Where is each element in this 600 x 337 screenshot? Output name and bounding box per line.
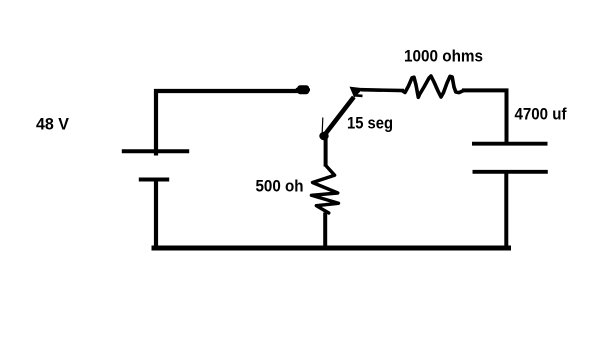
node: switch input terminal dot <box>297 85 309 94</box>
svg-text:1000 ohms: 1000 ohms <box>404 47 483 65</box>
wire: switch pivot down to resistor R2 top lead <box>324 138 328 167</box>
svg-text:500 oh: 500 oh <box>256 177 304 195</box>
battery V1 long (positive) plate <box>122 149 189 153</box>
capacitor C1 top plate <box>472 142 548 146</box>
wire: resistor R2 bottom lead to bottom rail <box>323 213 327 249</box>
svg-text:15 seg: 15 seg <box>347 115 393 133</box>
wire: capacitor bottom plate down to bottom rail <box>504 172 508 250</box>
resistor R2 500 oh (hand-drawn vertical zigzag) <box>311 166 338 214</box>
switch S1 arrow notch <box>354 94 363 97</box>
battery V1 short (negative) plate <box>139 178 169 182</box>
wire: bottom rail <box>154 246 509 251</box>
switch S1 arrowhead <box>350 87 364 98</box>
svg-text:4700 uf: 4700 uf <box>515 105 567 123</box>
switch S1 pivot tick (thin vertical mark) <box>321 118 324 134</box>
wire: switch arrow to resistor R1 left lead <box>361 88 404 93</box>
wire: resistor R1 right lead to top-right corner and down to capacitor top plate <box>462 90 507 143</box>
svg-text:48 V: 48 V <box>36 115 69 133</box>
wire: top-left from battery positive up and right to switch terminal <box>156 91 299 156</box>
switch S1 pivot dot <box>319 132 328 141</box>
switch S1 blade <box>325 97 354 135</box>
resistor R1 1000 ohms (hand-drawn zigzag) <box>403 76 463 97</box>
capacitor C1 bottom plate <box>473 170 548 174</box>
wire: battery negative down to bottom rail <box>154 180 158 250</box>
